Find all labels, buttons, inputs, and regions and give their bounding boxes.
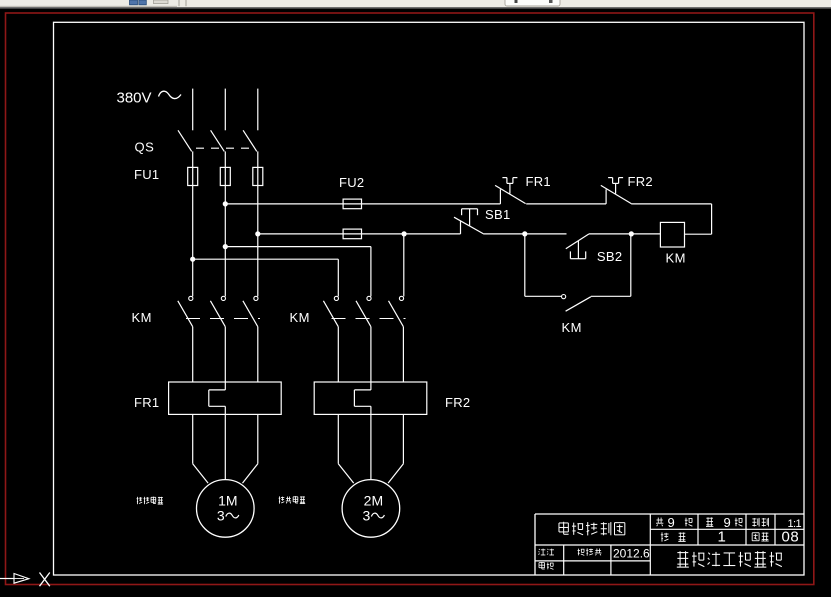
svg-text:FR1: FR1 bbox=[134, 395, 159, 410]
svg-text:KM: KM bbox=[666, 251, 687, 266]
svg-text:3: 3 bbox=[217, 508, 225, 524]
svg-text:2M: 2M bbox=[364, 493, 383, 509]
svg-text:FR2: FR2 bbox=[445, 395, 470, 410]
svg-text:FU1: FU1 bbox=[134, 167, 159, 182]
svg-text:FR1: FR1 bbox=[526, 174, 551, 189]
svg-text:3: 3 bbox=[363, 508, 371, 524]
svg-text:1M: 1M bbox=[218, 493, 237, 509]
svg-text:FR2: FR2 bbox=[628, 174, 653, 189]
svg-text:SB2: SB2 bbox=[597, 249, 622, 264]
svg-text:9: 9 bbox=[668, 515, 675, 530]
svg-text:QS: QS bbox=[135, 140, 155, 155]
svg-text:KM: KM bbox=[562, 320, 583, 335]
svg-text:KM: KM bbox=[290, 310, 311, 325]
svg-text:1: 1 bbox=[718, 529, 726, 546]
svg-text:2012.6: 2012.6 bbox=[613, 547, 650, 561]
svg-text:FU2: FU2 bbox=[339, 175, 364, 190]
svg-text:08: 08 bbox=[782, 529, 800, 546]
svg-text:KM: KM bbox=[132, 310, 153, 325]
svg-text:SB1: SB1 bbox=[485, 207, 510, 222]
svg-text:380V: 380V bbox=[117, 90, 152, 107]
